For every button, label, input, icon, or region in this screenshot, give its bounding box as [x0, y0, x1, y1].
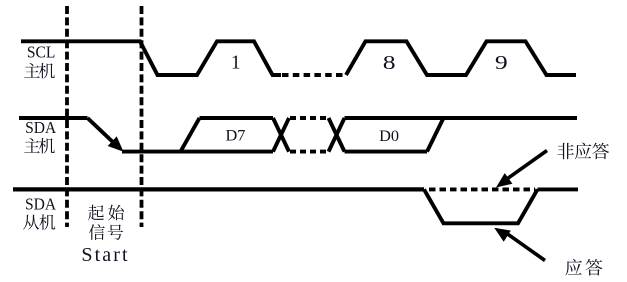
label 从机 (slave) under SDA [23, 214, 55, 230]
data bit D0 cell top rail and released high line [345, 116, 578, 120]
ACK annotation arrow shaft [504, 232, 545, 261]
svg-text:Start: Start [81, 244, 129, 266]
svg-text:D0: D0 [379, 126, 399, 145]
omitted-bits dashed bottom rail [290, 150, 328, 154]
svg-text:SCL: SCL [27, 42, 56, 62]
svg-text:SDA: SDA [25, 194, 56, 214]
bus crossover X junction 2 falling edge [329, 118, 345, 152]
SCL low-level dashed gap segment [282, 73, 346, 77]
SDA master start-condition falling diagonal wire [88, 118, 117, 145]
bus crossover X junction 2 rising edge [329, 118, 345, 152]
label 信号 (signal) line 2 [89, 224, 123, 240]
start-condition marker dashed vertical line 1 [65, 6, 69, 227]
label 非应答 (NACK) [557, 143, 609, 160]
SDA slave ACK low pulse (fall, low, rise) [424, 189, 538, 223]
data bit D0 cell right rising edge [427, 118, 444, 152]
SDA master start-condition arrowhead [108, 136, 124, 151]
SDA master low rail after start [122, 150, 273, 154]
bus crossover X junction 1 rising edge [273, 118, 289, 152]
svg-text:8: 8 [383, 51, 396, 74]
label 主机 (master) under SCL [24, 63, 55, 79]
SDA master high rail before start condition [19, 116, 88, 120]
NACK annotation arrow shaft [504, 151, 547, 182]
label 起始 (start) line 1 [88, 205, 124, 221]
svg-text:1: 1 [231, 53, 241, 74]
SCL master clock waveform solid left part (high, fall, pulse 1) [21, 41, 281, 75]
omitted-bits dashed top rail [290, 116, 328, 120]
SDA slave high rail right part [538, 187, 579, 191]
label 应答 (ACK) [565, 259, 602, 276]
svg-text:SDA: SDA [25, 117, 56, 137]
ACK annotation arrowhead [494, 228, 511, 242]
data bit D7 cell top rail [200, 116, 274, 120]
SDA slave high rail left part [13, 187, 424, 191]
SCL waveform right part (pulses 8 and 9) [346, 41, 576, 75]
NACK annotation arrowhead [496, 173, 512, 187]
data bit D0 cell bottom rail [345, 150, 428, 154]
label 主机 (master) under SDA [24, 138, 55, 154]
data bit D7 cell left rising edge [181, 118, 200, 152]
bus crossover X junction 1 falling edge [273, 118, 289, 152]
SDA slave NACK dashed high alternative [429, 187, 535, 191]
start-condition marker dashed vertical line 2 [140, 6, 144, 227]
svg-text:D7: D7 [225, 126, 245, 145]
svg-text:9: 9 [495, 51, 508, 74]
